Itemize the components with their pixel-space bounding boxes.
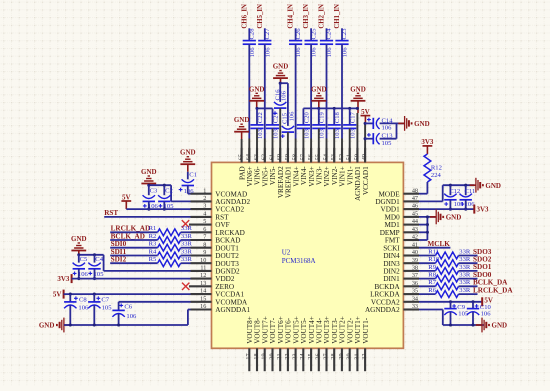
ground GND above C5/C4 <box>71 235 87 255</box>
net label RST <box>104 209 118 217</box>
svg-text:33R: 33R <box>181 225 193 232</box>
wire C1 to pin 1 <box>188 193 191 195</box>
capacitor C1 106 VCOMAD <box>179 171 197 194</box>
svg-text:15: 15 <box>200 295 206 302</box>
ground GND above C3/C2 <box>141 168 157 185</box>
svg-text:33R: 33R <box>181 241 193 248</box>
wire LRCLK_AD <box>110 231 157 233</box>
net label LRCLK_DA <box>473 286 513 294</box>
junction dots MD pins tie <box>426 215 429 234</box>
svg-text:VDD1: VDD1 <box>381 206 401 214</box>
svg-text:CH5_IN: CH5_IN <box>257 4 264 29</box>
ground GND right rail <box>476 318 507 333</box>
svg-text:24: 24 <box>299 353 306 359</box>
svg-text:8: 8 <box>203 241 206 248</box>
svg-text:13: 13 <box>200 280 206 287</box>
wire SDI2 <box>110 262 157 264</box>
svg-text:3V3: 3V3 <box>421 138 434 146</box>
wire C19 to pin 55 <box>312 108 326 162</box>
junction 5V node <box>364 122 367 140</box>
svg-text:6: 6 <box>203 226 206 233</box>
svg-text:R12: R12 <box>431 165 442 172</box>
svg-text:9: 9 <box>203 249 206 256</box>
svg-text:ZERO: ZERO <box>215 283 234 291</box>
svg-text:18: 18 <box>253 353 260 359</box>
ground GND at PAD pin 65 <box>234 116 250 162</box>
U2 designator and part number <box>282 248 316 264</box>
power 3V3 at VDD1 pin 46 <box>474 205 489 214</box>
capacitor C14 106 <box>365 117 396 131</box>
wire GND bracket C3/C2 to pin 2 <box>149 185 191 201</box>
svg-text:C7: C7 <box>101 296 109 303</box>
U2 right pin stubs (pins 48-33) <box>403 194 419 310</box>
svg-text:21: 21 <box>276 353 283 359</box>
svg-text:31: 31 <box>353 353 360 359</box>
ground GND right of C12/C11 <box>470 178 501 193</box>
svg-text:25: 25 <box>307 353 314 359</box>
svg-text:14: 14 <box>200 288 206 295</box>
svg-text:GND: GND <box>414 120 430 128</box>
net label SDO3 <box>473 248 492 256</box>
svg-text:CH3_IN: CH3_IN <box>303 4 310 29</box>
svg-text:C22: C22 <box>257 112 264 123</box>
svg-text:VIN6-: VIN6- <box>254 166 262 185</box>
svg-text:28: 28 <box>330 353 337 359</box>
svg-text:C21: C21 <box>272 112 279 123</box>
U2 bottom pin names <box>246 316 370 344</box>
resistor R6 33R <box>428 287 471 297</box>
net label CH1_IN <box>334 4 341 29</box>
svg-text:106: 106 <box>78 305 89 312</box>
wire VCCDA2 pin 34 to 5V <box>419 301 482 303</box>
svg-text:VOUT5-: VOUT5- <box>300 317 308 344</box>
svg-text:CH2_IN: CH2_IN <box>319 4 326 29</box>
svg-text:R4: R4 <box>149 248 157 255</box>
svg-text:33R: 33R <box>459 256 471 263</box>
svg-text:4: 4 <box>203 211 206 218</box>
svg-text:VIN4+: VIN4+ <box>292 166 300 186</box>
wire to net SDO3 <box>459 255 478 257</box>
resistor R5 33R <box>149 256 193 266</box>
wire DGND1 pin 47 to GND bracket <box>419 185 474 201</box>
svg-text:SCKI: SCKI <box>383 244 400 252</box>
svg-text:27: 27 <box>322 353 329 359</box>
svg-text:33R: 33R <box>181 248 193 255</box>
capacitor C8 106 <box>64 294 89 325</box>
svg-text:RST: RST <box>104 209 118 217</box>
wire CH5_IN to pin 62 <box>258 28 271 163</box>
net label CH3_IN <box>303 4 310 29</box>
wire 3V3 to pin 12 <box>72 278 191 280</box>
svg-text:33R: 33R <box>459 287 471 294</box>
capacitor C6 106 <box>112 302 137 325</box>
U2 top pin stubs (pins 65-49) <box>242 148 366 163</box>
wire MD0-MD1-DEMP-FMT tie <box>419 217 427 240</box>
svg-text:23: 23 <box>292 353 299 359</box>
svg-text:106: 106 <box>382 125 393 132</box>
svg-text:12: 12 <box>200 272 206 279</box>
svg-text:C27: C27 <box>264 28 271 40</box>
U2 left pin stubs (pins 1-16) <box>189 194 212 310</box>
svg-text:1: 1 <box>203 187 206 194</box>
wire MCLK to pin 41 <box>419 247 450 249</box>
wire GND bracket pins 60-59 <box>280 83 288 126</box>
power 3V3 at VDD2 pin 12 <box>57 274 71 283</box>
svg-text:C8: C8 <box>79 296 87 303</box>
capacitor C10 106 <box>467 302 492 325</box>
capacitor C9 105 <box>444 302 469 325</box>
svg-text:VOUT7+: VOUT7+ <box>261 316 269 344</box>
svg-text:AGNDDA1: AGNDDA1 <box>215 306 250 314</box>
net label LRCLK_AD <box>111 225 151 233</box>
wire GND bracket C5/C4 to pin 11 <box>79 255 191 271</box>
wire pin 37 to R8 <box>419 278 436 280</box>
svg-text:35: 35 <box>412 288 418 295</box>
net label CH4_IN <box>288 4 295 29</box>
junction dots C5/C4 tops <box>77 253 96 256</box>
junction dots C5/C4 bottoms <box>77 277 96 280</box>
wire R12 to pin 48 <box>419 182 427 194</box>
wire C18 to pin 53 <box>328 108 342 162</box>
wire GND bracket pins 63-61 <box>257 108 273 125</box>
svg-text:C25: C25 <box>310 28 317 40</box>
svg-text:R5: R5 <box>149 256 157 263</box>
svg-text:105: 105 <box>102 305 113 312</box>
svg-text:33R: 33R <box>459 279 471 286</box>
svg-text:C6: C6 <box>124 304 132 311</box>
resistor R11 33R <box>428 248 471 258</box>
ground GND right of C14 <box>398 116 429 131</box>
junction dots C12/C11 bottoms <box>449 208 467 211</box>
svg-text:32: 32 <box>361 353 368 359</box>
U2 left pin names <box>215 190 250 314</box>
svg-text:BCLK_DA: BCLK_DA <box>473 279 508 287</box>
op-amp U2 PCM3168A body <box>212 162 404 348</box>
svg-text:R3: R3 <box>149 241 157 248</box>
wire RST to pin 4 <box>104 216 190 218</box>
junction dots on right GND rail <box>449 323 475 326</box>
capacitor C2 105 <box>158 185 174 210</box>
svg-text:LRCLK_DA: LRCLK_DA <box>473 286 513 294</box>
capacitor C7 105 <box>88 294 112 325</box>
net label SDO1 <box>473 263 492 271</box>
svg-text:5: 5 <box>203 218 206 225</box>
resistor R2 33R <box>149 233 193 244</box>
U2 top pin numbers <box>238 154 369 160</box>
svg-text:C26: C26 <box>295 28 302 40</box>
wire AGNDDA2 pin 33 to GND rail <box>419 310 484 326</box>
svg-text:33R: 33R <box>459 272 471 279</box>
wire pin 35 to R6 <box>419 293 436 295</box>
svg-text:33R: 33R <box>181 256 193 263</box>
svg-text:10: 10 <box>200 257 206 264</box>
resistor R4 33R <box>149 248 193 258</box>
svg-text:106: 106 <box>280 90 287 101</box>
svg-text:C1: C1 <box>189 171 197 178</box>
svg-text:224: 224 <box>431 172 442 179</box>
svg-text:C3: C3 <box>150 188 158 195</box>
svg-text:45: 45 <box>412 211 418 218</box>
svg-text:C19: C19 <box>319 112 326 124</box>
ground GND left rail <box>39 318 70 333</box>
svg-text:11: 11 <box>200 265 206 272</box>
wire pin 36 to R7 <box>419 285 436 287</box>
svg-text:3: 3 <box>203 203 206 210</box>
wire to net BCLK_DA <box>459 285 478 287</box>
svg-text:VIN2-: VIN2- <box>331 166 339 185</box>
resistor R3 33R <box>149 241 193 252</box>
ground GND above C22/C21 <box>249 85 265 108</box>
wire BCLK_AD <box>110 239 157 241</box>
svg-text:C20: C20 <box>303 112 310 124</box>
svg-text:17: 17 <box>245 353 252 359</box>
svg-text:VCCAD2: VCCAD2 <box>215 206 244 214</box>
svg-text:106: 106 <box>126 313 137 320</box>
svg-text:CH4_IN: CH4_IN <box>288 4 295 29</box>
svg-text:39: 39 <box>412 257 418 264</box>
wire 5V node to pin 49 <box>364 123 366 162</box>
resistor R8 33R <box>428 272 471 283</box>
U2 right pin names <box>365 190 401 314</box>
wire C17 to pin 51 <box>343 108 357 162</box>
svg-text:C18: C18 <box>334 112 341 124</box>
svg-text:37: 37 <box>412 272 418 279</box>
svg-text:42: 42 <box>412 234 418 241</box>
power 5V at VCCDA1 pin 14 <box>53 290 64 299</box>
svg-text:GND: GND <box>350 85 366 93</box>
U2 left pin numbers <box>200 187 206 310</box>
svg-text:106: 106 <box>288 111 295 122</box>
wire GND rail to pin 16 <box>64 310 191 326</box>
wire GND bracket pins 57-50 <box>303 108 357 162</box>
net label SDI0 <box>111 240 127 248</box>
svg-text:C5: C5 <box>80 256 88 263</box>
svg-text:GND: GND <box>180 149 196 157</box>
junction at pin 60 top <box>279 82 282 85</box>
resistor R12 224 <box>424 154 442 182</box>
svg-text:R1: R1 <box>149 225 157 232</box>
svg-text:CH6_IN: CH6_IN <box>241 4 248 29</box>
wire pin 39 to R10 <box>419 262 436 264</box>
svg-text:GND: GND <box>39 322 55 330</box>
net label CH2_IN <box>319 4 326 29</box>
svg-text:GND: GND <box>311 85 327 93</box>
svg-text:VOUT1-: VOUT1- <box>362 317 370 344</box>
wire R2 to pin 7 <box>181 239 191 241</box>
svg-text:C2: C2 <box>165 188 173 195</box>
net label SDI2 <box>111 256 127 264</box>
svg-text:GND: GND <box>492 322 508 330</box>
net label SDI1 <box>111 248 127 256</box>
wire to net LRCLK_DA <box>459 293 478 295</box>
svg-text:22: 22 <box>284 353 291 359</box>
capacitor C11 106 <box>460 185 476 209</box>
wire CH1_IN to pin 52 <box>335 28 348 163</box>
svg-text:47: 47 <box>412 195 418 202</box>
svg-text:AGNDDA2: AGNDDA2 <box>365 306 400 314</box>
resistor R7 33R <box>428 279 471 290</box>
svg-text:29: 29 <box>338 353 345 359</box>
svg-text:3V3: 3V3 <box>477 205 490 213</box>
svg-text:U2: U2 <box>282 248 291 256</box>
net label SDO2 <box>473 256 492 264</box>
wire pin 38 to R9 <box>419 270 436 272</box>
svg-text:C28: C28 <box>249 28 256 40</box>
capacitor C15 106 VREFAD1 <box>281 111 296 162</box>
wire to net SDO0 <box>459 278 478 280</box>
svg-text:PCM3168A: PCM3168A <box>282 257 316 265</box>
svg-text:5V: 5V <box>53 291 62 299</box>
svg-text:33R: 33R <box>181 233 193 240</box>
net label MCLK <box>428 240 451 248</box>
svg-text:5V: 5V <box>361 108 370 116</box>
wire CH3_IN to pin 56 <box>305 28 318 163</box>
svg-text:GND: GND <box>249 85 265 93</box>
svg-text:46: 46 <box>412 203 418 210</box>
U2 bottom pin numbers <box>245 353 368 359</box>
wire R1 to pin 6 <box>181 231 191 233</box>
svg-text:34: 34 <box>412 295 418 302</box>
svg-text:43: 43 <box>412 226 418 233</box>
capacitor C4 105 <box>88 255 104 279</box>
wire R3 to pin 8 <box>181 247 191 249</box>
svg-text:C4: C4 <box>95 256 103 263</box>
net label CH5_IN <box>257 4 264 29</box>
svg-text:GND: GND <box>446 214 462 222</box>
svg-text:CH1_IN: CH1_IN <box>334 4 341 29</box>
wire 5V to pin 14 <box>64 293 191 295</box>
power 5V at VCCAD1 pin 49 <box>361 108 371 124</box>
capacitor C12 105 <box>444 185 464 209</box>
capacitor C16 106 VREFAD2 <box>273 83 287 162</box>
junction dots on GND bracket <box>317 107 359 110</box>
wire C22 to pin 63 <box>250 108 264 162</box>
svg-text:3V3: 3V3 <box>57 275 70 283</box>
svg-text:36: 36 <box>412 280 418 287</box>
svg-text:DOUT1: DOUT1 <box>215 244 239 252</box>
wire C21 to pin 61 <box>266 112 280 162</box>
wire 5V to pin 3 <box>126 208 190 210</box>
net label BCLK_AD <box>111 232 145 240</box>
svg-text:33R: 33R <box>459 248 471 255</box>
svg-text:C24: C24 <box>326 28 333 40</box>
no-connect cross ZERO pin 13 <box>182 283 189 290</box>
svg-text:GND: GND <box>141 168 157 176</box>
svg-text:SDI2: SDI2 <box>111 256 127 264</box>
junction at pin 63 top <box>255 107 258 110</box>
svg-text:30: 30 <box>346 353 353 359</box>
svg-text:VCCAD1: VCCAD1 <box>362 166 370 195</box>
svg-text:106: 106 <box>481 311 492 318</box>
wire C20 to pin 57 <box>297 112 311 163</box>
junction dots C3/C2 bottoms on 5V rail <box>147 208 166 211</box>
svg-text:16: 16 <box>200 303 206 310</box>
capacitor C3 106 <box>143 185 159 210</box>
capacitor C5 106 <box>73 255 89 279</box>
svg-text:103: 103 <box>319 128 326 139</box>
resistor R1 33R <box>149 225 193 236</box>
wire to net SDO1 <box>459 270 478 272</box>
svg-text:44: 44 <box>412 218 418 225</box>
U2 bottom pin stubs (pins 17-32) <box>249 348 365 371</box>
wire MD0 pin 45 to GND <box>419 216 436 218</box>
junction dots C9/C10 tops <box>449 300 475 303</box>
svg-text:7: 7 <box>203 234 206 241</box>
svg-text:20: 20 <box>268 353 275 359</box>
svg-text:C23: C23 <box>341 28 348 40</box>
svg-text:C12: C12 <box>449 188 460 195</box>
U2 right pin numbers <box>412 187 418 310</box>
net label SDO0 <box>473 271 492 279</box>
wire VCOMDA pin 15 <box>119 301 191 303</box>
wire R5 to pin 10 <box>181 262 191 264</box>
svg-text:33: 33 <box>412 303 418 310</box>
power 5V at VCCDA2 pin 34 <box>482 297 493 307</box>
net label CH6_IN <box>241 4 248 29</box>
junction dots C12/C11 tops <box>449 184 467 187</box>
svg-text:38: 38 <box>412 265 418 272</box>
svg-text:GND: GND <box>273 63 289 71</box>
svg-text:GND: GND <box>485 182 501 190</box>
ground GND above C19 <box>311 85 327 108</box>
svg-text:2: 2 <box>203 195 206 202</box>
junction dots on GND rail <box>69 323 120 326</box>
svg-text:R2: R2 <box>149 233 157 240</box>
wire C14/C13 to GND <box>397 123 405 138</box>
U2 top pin names <box>238 166 369 201</box>
svg-text:C11: C11 <box>465 188 476 195</box>
svg-text:BCKDA: BCKDA <box>375 283 401 291</box>
ground GND above C16/C15 <box>273 63 289 84</box>
wire SDI0 <box>110 247 157 249</box>
svg-text:26: 26 <box>315 353 322 359</box>
svg-text:C17: C17 <box>350 112 357 124</box>
svg-text:41: 41 <box>412 241 418 248</box>
wire CH6_IN to pin 64 <box>243 28 256 163</box>
wire pin 40 to R11 <box>419 255 436 257</box>
svg-text:33R: 33R <box>459 264 471 271</box>
net label BCLK_DA <box>473 279 508 287</box>
svg-text:105: 105 <box>382 140 393 147</box>
power 3V3 above R12 <box>421 138 434 154</box>
junction dots C3/C2 tops <box>147 184 166 187</box>
no-connect cross OVF pin 5 <box>182 220 189 227</box>
svg-text:GND: GND <box>234 116 250 124</box>
ground GND above C1 <box>180 149 196 172</box>
wire VDD1 pin 46 to 3V3 <box>419 208 474 210</box>
ground GND above AGNDAD1 pin 50 <box>350 85 366 113</box>
resistor R9 33R <box>428 264 471 275</box>
power 5V at VCCAD2 pin 3 <box>121 193 131 209</box>
ground GND at MD0 <box>430 210 461 225</box>
svg-text:19: 19 <box>261 353 268 359</box>
junction dots C8/C7 tops <box>69 293 96 296</box>
resistor R10 33R <box>428 256 471 266</box>
capacitor C13 105 <box>365 133 396 147</box>
wire CH2_IN to pin 54 <box>320 28 333 163</box>
svg-text:VOUT2+: VOUT2+ <box>339 316 347 344</box>
wire SDI1 <box>110 255 157 257</box>
wire CH4_IN to pin 58 <box>289 28 302 163</box>
svg-text:GND: GND <box>71 235 87 243</box>
svg-text:40: 40 <box>412 249 418 256</box>
wire R4 to pin 9 <box>181 255 191 257</box>
wire to net SDO2 <box>459 262 478 264</box>
svg-text:48: 48 <box>412 187 418 194</box>
